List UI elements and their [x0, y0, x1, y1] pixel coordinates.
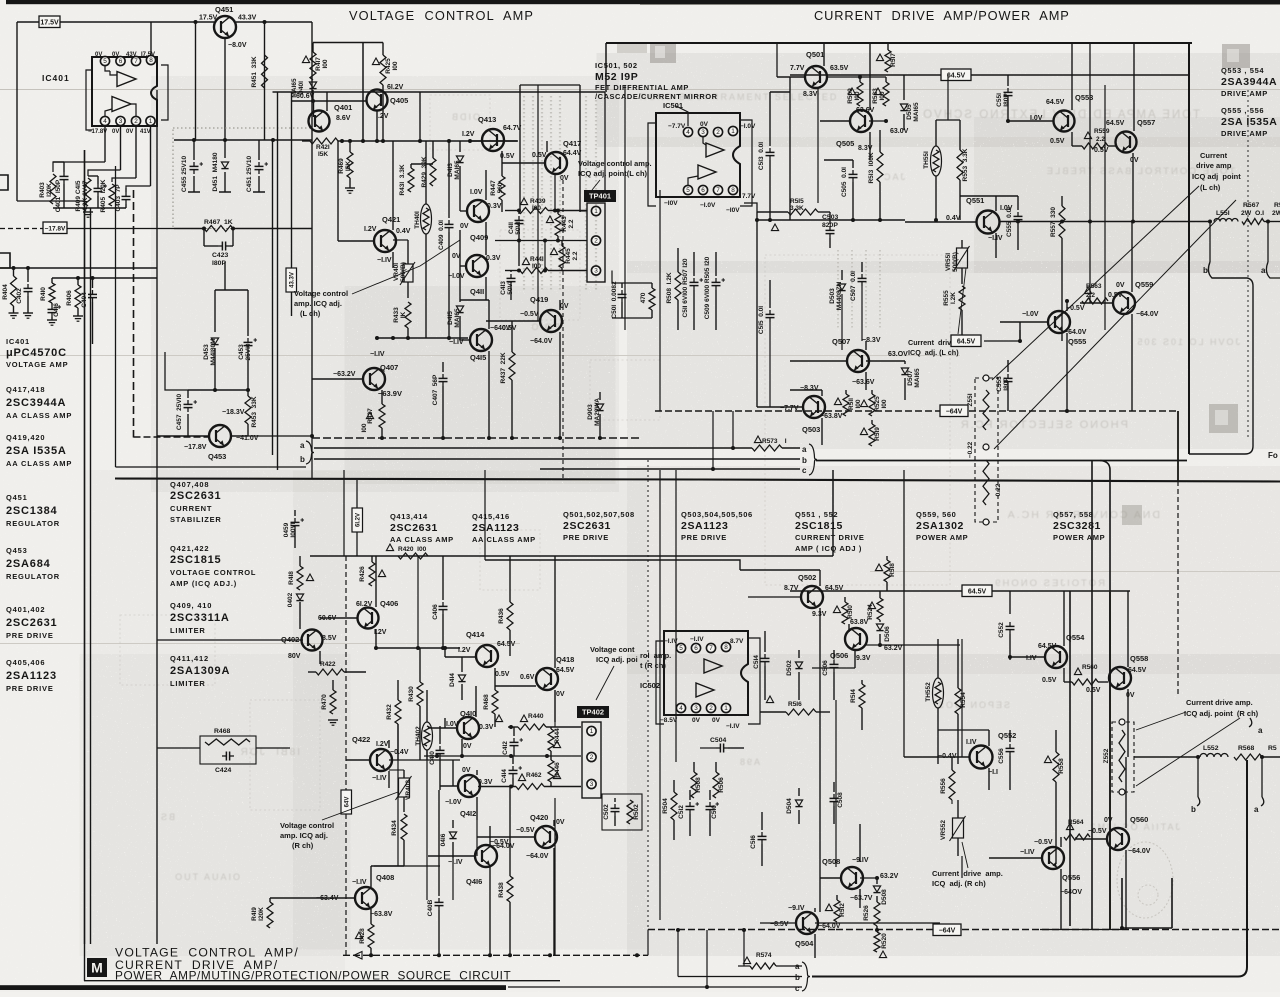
title block letter M: [87, 958, 107, 977]
diode D503: [841, 270, 843, 280]
svg-text:TP402: TP402: [582, 708, 604, 717]
svg-text:2SA1123: 2SA1123: [681, 520, 728, 532]
svg-text:Q407: Q407: [380, 363, 398, 372]
bottom right box: [1121, 878, 1123, 928]
svg-text:25VI0: 25VI0: [245, 343, 252, 360]
svg-text:R468: R468: [483, 694, 490, 710]
resistor R526: [874, 902, 880, 926]
capacitor C411: [518, 212, 520, 214]
svg-text:C4I0: C4I0: [429, 751, 436, 765]
transistor Q413: [482, 129, 504, 151]
svg-text:D4I5: D4I5: [447, 311, 454, 325]
wire Q502: [748, 596, 801, 598]
wire 17.5V bus: [17, 21, 214, 23]
svg-text:0.6V: 0.6V: [520, 674, 535, 681]
capacitor C403: [125, 188, 127, 192]
bottom rails abc: [738, 965, 750, 967]
svg-text:0V: 0V: [560, 303, 569, 310]
diode D506: [879, 620, 881, 622]
svg-text:JAC: JAC: [882, 172, 905, 182]
svg-text:C5I0: C5I0: [711, 805, 718, 819]
wire Q555: [1000, 321, 1048, 323]
rail y556 upper R: [310, 555, 833, 557]
svg-text:R4I7: R4I7: [315, 57, 322, 71]
transistor Q407: [363, 368, 385, 390]
svg-text:R574: R574: [756, 952, 772, 959]
b a hook drops Lch: [1209, 222, 1211, 263]
svg-text:2.2: 2.2: [1086, 292, 1095, 299]
svg-text:Voltage control: Voltage control: [280, 821, 334, 830]
svg-text:POWER AMP: POWER AMP: [1053, 533, 1105, 542]
svg-text:I8BI JOR: I8BI JOR: [239, 747, 300, 758]
svg-text:0V: 0V: [460, 223, 469, 230]
svg-text:R444: R444: [554, 728, 561, 744]
svg-text:2W O.I: 2W O.I: [1241, 210, 1264, 217]
wire Q503: [757, 406, 803, 408]
svg-text:−I.IV: −I.IV: [370, 351, 385, 358]
transistor Q556: [1042, 847, 1064, 869]
svg-text:43.3V: 43.3V: [290, 272, 296, 288]
svg-text:C4II: C4II: [508, 222, 515, 234]
IC401 package: [92, 57, 157, 126]
svg-text:6I.2V: 6I.2V: [356, 513, 362, 527]
transistor Q419: [540, 310, 562, 332]
svg-text:Q501,502,507,508: Q501,502,507,508: [563, 510, 635, 519]
transistor Q553: [1054, 111, 1075, 132]
transistor Q401: [309, 111, 330, 132]
svg-text:D451 M4180: D451 M4180: [212, 152, 219, 191]
svg-text:C50I 0.0082: C50I 0.0082: [611, 281, 618, 319]
resistor R405: [109, 184, 115, 206]
svg-text:0459: 0459: [283, 522, 290, 537]
svg-text:R5I4: R5I4: [850, 689, 857, 703]
long vertical x291 43.3V: [291, 92, 293, 268]
svg-text:2W: 2W: [1272, 210, 1280, 217]
transistor Q412: [458, 775, 480, 797]
wire Q505: [820, 120, 850, 122]
svg-text:a: a: [795, 962, 800, 971]
resistor R440 horizontal: [508, 726, 518, 728]
TP401 pin 3: [591, 266, 600, 275]
svg-text:0V: 0V: [95, 52, 102, 58]
rail y43 top: [606, 42, 1192, 44]
upper rail y42: [313, 42, 383, 44]
svg-text:A98: A98: [738, 757, 760, 767]
rail y920 dashed R: [343, 954, 648, 956]
svg-text:Q503: Q503: [802, 425, 820, 434]
svg-text:AA CLASS AMP: AA CLASS AMP: [472, 535, 536, 544]
svg-text:Current drive amp.: Current drive amp.: [932, 869, 1003, 878]
transistor Q402: [302, 630, 323, 651]
svg-text:820P: 820P: [822, 222, 838, 229]
svg-text:I00: I00: [879, 91, 886, 100]
svg-text:0V: 0V: [692, 717, 701, 724]
svg-text:IC502: IC502: [640, 681, 660, 690]
IC502 package: [664, 631, 748, 715]
resistor R431: [410, 164, 412, 168]
svg-text:64.5V: 64.5V: [1128, 667, 1147, 674]
transistor Q507: [847, 350, 869, 372]
transistor Q506: [845, 628, 867, 650]
capacitor C451: [258, 140, 260, 160]
resistor R560: [1064, 681, 1072, 683]
wires from IC401 pins down: [104, 126, 106, 162]
svg-text:TH40I: TH40I: [414, 211, 421, 229]
column separator x157: [156, 90, 158, 944]
rail to Q453 area: [224, 262, 226, 290]
voltage label -17.8V: [43, 222, 67, 234]
svg-text:R426: R426: [359, 566, 366, 582]
svg-text:3.3K: 3.3K: [790, 205, 804, 212]
svg-text:Current drive amp.: Current drive amp.: [1186, 698, 1253, 707]
transistor Q560: [1107, 828, 1129, 850]
svg-text:C4I4: C4I4: [501, 769, 508, 783]
svg-text:2SC3311A: 2SC3311A: [170, 612, 230, 624]
svg-text:0.3V: 0.3V: [479, 724, 494, 731]
svg-text:b: b: [1191, 805, 1196, 814]
svg-text:C407 56P: C407 56P: [432, 374, 439, 405]
capacitor C515: [769, 280, 771, 308]
wire pin8 to bus: [150, 22, 152, 56]
IC401 opamp B: [112, 97, 131, 112]
ghost fold line: [1247, 90, 1249, 440]
resistor R557: [1061, 196, 1063, 206]
svg-text:Q422: Q422: [352, 735, 370, 744]
svg-text:R429 39K: R429 39K: [421, 156, 428, 187]
svg-text:c: c: [802, 466, 807, 475]
vertical 61.2V box: [352, 508, 363, 532]
IC401 pin 6: [116, 56, 125, 65]
svg-text:50VI: 50VI: [515, 221, 522, 235]
svg-text:64.4V: 64.4V: [563, 150, 582, 157]
svg-text:PRE DRIVE: PRE DRIVE: [6, 684, 54, 693]
svg-text:t (R ch): t (R ch): [640, 661, 666, 670]
resistor R525: [871, 390, 873, 394]
transistor Q411: [466, 255, 488, 277]
IC502 pin 5: [676, 643, 685, 652]
svg-text:0V: 0V: [560, 175, 569, 182]
svg-text:Q502: Q502: [798, 573, 816, 582]
wire Q412: [440, 785, 458, 787]
rail y591 64.5V lower: [790, 590, 962, 592]
resistor R511: [845, 390, 847, 394]
right tall verticals: [1109, 592, 1111, 930]
svg-text:Q401: Q401: [334, 103, 352, 112]
svg-text:5: 5: [679, 645, 683, 652]
svg-text:63.2V: 63.2V: [884, 645, 903, 652]
svg-text:63.8V: 63.8V: [850, 619, 869, 626]
wire Q504: [760, 922, 796, 924]
rail y648 R: [376, 647, 460, 649]
svg-text:2SC3944A: 2SC3944A: [6, 397, 66, 409]
capacitor C415: [97, 176, 99, 184]
svg-text:Q420: Q420: [530, 813, 548, 822]
capacitor C414: [512, 756, 514, 764]
transistor Q502: [801, 586, 823, 608]
dither hatch strips: [524, 96, 880, 330]
svg-text:CURRENT: CURRENT: [170, 504, 212, 513]
svg-text:Q451: Q451: [6, 493, 28, 502]
svg-text:0.5V: 0.5V: [1050, 138, 1065, 145]
svg-text:2: 2: [594, 238, 598, 245]
thermistor TH552: [937, 639, 939, 678]
svg-text:2SC1815: 2SC1815: [795, 520, 843, 532]
svg-text:AA CLASS AMP: AA CLASS AMP: [6, 411, 72, 420]
TP402 pin 1: [587, 726, 596, 735]
wire Q418: [554, 556, 556, 668]
svg-text:I00: I00: [532, 205, 541, 212]
svg-text:ICQ adj. (L ch): ICQ adj. (L ch): [908, 348, 959, 357]
svg-text:R4I9: R4I9: [251, 907, 258, 921]
capacitor C507: [861, 262, 863, 272]
svg-text:64.5V: 64.5V: [947, 72, 966, 79]
svg-text:8: 8: [731, 187, 735, 194]
svg-text:2SC1815: 2SC1815: [170, 554, 221, 566]
svg-text:I00: I00: [361, 423, 368, 432]
resistor R438: [509, 788, 511, 876]
VR402 pot: [399, 778, 410, 797]
dashed bus y411 -64V: [655, 410, 941, 412]
svg-text:R447: R447: [490, 180, 497, 196]
resistor R558: [1055, 730, 1057, 752]
resistor R409: [85, 178, 91, 206]
TP402 pin strip: [582, 722, 601, 798]
resistor R523: [885, 77, 887, 82]
ground cluster: [53, 207, 126, 209]
svg-text:R559: R559: [1094, 128, 1110, 135]
svg-text:Q558: Q558: [1130, 654, 1148, 663]
coil L552: [1200, 754, 1228, 758]
svg-text:−17.8V: −17.8V: [45, 225, 66, 232]
svg-text:VOLTAGE CONTROL AMP: VOLTAGE CONTROL AMP: [349, 8, 534, 23]
svg-text:2: 2: [716, 129, 720, 136]
resistor R517: [887, 43, 889, 50]
svg-text:POWER AMP/MUTING/PROTECTION/P: POWER AMP/MUTING/PROTECTION/POWER SOURCE…: [115, 969, 511, 983]
svg-text:8.5V: 8.5V: [322, 635, 337, 642]
svg-text:ROTOIJES ONOH9: ROTOIJES ONOH9: [993, 578, 1105, 589]
svg-text:Q553 , 554: Q553 , 554: [1221, 66, 1264, 75]
transistor Q559: [1113, 292, 1135, 314]
svg-text:R462: R462: [526, 772, 542, 779]
svg-text:I00VI: I00VI: [290, 522, 297, 537]
svg-text:R5II: R5II: [848, 398, 855, 410]
svg-text:C5I5 0.0I: C5I5 0.0I: [758, 306, 765, 334]
resistor R420: [398, 553, 428, 559]
svg-text:R5I6: R5I6: [788, 701, 802, 708]
svg-text:Q421,422: Q421,422: [170, 544, 209, 553]
svg-text:−I.IV: −I.IV: [448, 859, 463, 866]
long vertical x312: [311, 22, 313, 140]
svg-text:R44I: R44I: [530, 256, 544, 263]
svg-text:Q421: Q421: [382, 215, 400, 224]
transistor Q508: [841, 867, 863, 889]
svg-text:DRIVE AMP: DRIVE AMP: [1221, 129, 1268, 138]
svg-text:R504: R504: [662, 798, 669, 814]
svg-text:Q451: Q451: [215, 5, 233, 14]
svg-text:C4I3: C4I3: [500, 281, 507, 295]
svg-text:TP401: TP401: [589, 192, 611, 201]
svg-text:M44I80M: M44I80M: [210, 338, 217, 365]
capacitor C505: [852, 160, 854, 168]
vertical x1190: [1188, 43, 1190, 454]
svg-text:I5K: I5K: [318, 151, 328, 158]
svg-text:C401 I50P: C401 I50P: [55, 179, 62, 212]
svg-text:I.IV: I.IV: [966, 739, 977, 746]
svg-text:Q554: Q554: [1066, 633, 1085, 642]
svg-text:−8.5V: −8.5V: [770, 921, 789, 928]
svg-text:1: 1: [590, 728, 594, 735]
svg-text:−63.2V: −63.2V: [333, 371, 356, 378]
resistor R418: [299, 556, 301, 566]
svg-text:8.7V: 8.7V: [784, 585, 799, 592]
svg-text:Q409, 410: Q409, 410: [170, 601, 212, 610]
capacitor C407: [442, 362, 444, 372]
svg-text:0.5V: 0.5V: [1086, 687, 1101, 694]
svg-text:−I0V: −I0V: [726, 207, 740, 214]
resistor R403: [50, 174, 56, 204]
svg-text:Z552: Z552: [1103, 748, 1110, 763]
svg-text:C502: C502: [603, 804, 610, 820]
svg-text:Q4I5: Q4I5: [470, 353, 486, 362]
IC502 pin 3: [691, 703, 700, 712]
resistor R434: [401, 814, 407, 840]
IC501 package: [656, 113, 740, 197]
svg-text:c: c: [795, 984, 800, 992]
IC501 pin 6: [698, 185, 707, 194]
svg-text:Q406: Q406: [380, 599, 398, 608]
IC401 outer loop wires: [86, 70, 92, 130]
svg-text:I20K: I20K: [46, 183, 53, 197]
wire Q422: [346, 759, 370, 761]
svg-text:−0.5V: −0.5V: [516, 827, 535, 834]
svg-text:OIDB: OIDB: [450, 112, 480, 122]
wire Q558: [1127, 591, 1129, 667]
svg-text:64.5V: 64.5V: [1038, 643, 1057, 650]
capacitor C513: [769, 92, 771, 146]
svg-text:1: 1: [149, 118, 153, 125]
svg-text:(R ch): (R ch): [292, 841, 314, 850]
svg-text:C508: C508: [837, 792, 844, 808]
svg-text:6: 6: [701, 187, 705, 194]
wire Q554: [1063, 591, 1065, 646]
svg-text:2SC2631: 2SC2631: [390, 522, 438, 534]
svg-text:R508: R508: [695, 777, 702, 793]
resistor R514: [861, 680, 863, 684]
mid line c: [540, 468, 800, 470]
svg-text:I5K: I5K: [345, 161, 352, 171]
svg-text:a: a: [1258, 726, 1263, 735]
svg-text:R560: R560: [1082, 664, 1098, 671]
svg-text:R420 I00: R420 I00: [398, 546, 427, 553]
svg-text:2SA1123: 2SA1123: [472, 522, 519, 534]
resistor R555: [959, 286, 965, 310]
diode D401: [309, 82, 316, 88]
svg-text:3: 3: [594, 268, 598, 275]
svg-text:4.9K 6V47: 4.9K 6V47: [82, 180, 89, 211]
svg-text:AA CLASS AMP: AA CLASS AMP: [6, 459, 72, 468]
transistor Q421: [374, 230, 396, 252]
capacitor C508: [833, 782, 835, 792]
svg-text:R553 3.3K: R553 3.3K: [962, 148, 969, 181]
svg-text:−0.5V: −0.5V: [520, 311, 539, 318]
IC502 pin 7: [706, 643, 715, 652]
svg-text:C506: C506: [822, 660, 829, 676]
svg-text:Q419,420: Q419,420: [6, 433, 45, 442]
svg-text:0V: 0V: [112, 129, 119, 135]
svg-text:−8.5V: −8.5V: [660, 717, 678, 724]
svg-text:Voltage control: Voltage control: [294, 289, 348, 298]
svg-text:(L ch): (L ch): [1200, 183, 1221, 192]
wire Q415: [460, 339, 470, 341]
svg-text:R524: R524: [867, 604, 874, 620]
svg-text:0V: 0V: [112, 52, 119, 58]
svg-text:5: 5: [686, 187, 690, 194]
resistor R554: [957, 639, 959, 688]
svg-text:8: 8: [149, 57, 153, 64]
svg-text:−0.5V: −0.5V: [1088, 828, 1107, 835]
svg-text:R440: R440: [528, 713, 544, 720]
svg-text:63.6V: 63.6V: [856, 107, 875, 114]
svg-text:CURRENT DRIVE AMP/POWER AMP: CURRENT DRIVE AMP/POWER AMP: [814, 8, 1070, 23]
svg-text:R508 I.2K: R508 I.2K: [666, 272, 673, 303]
svg-text:0.3V: 0.3V: [487, 203, 502, 210]
svg-text:I.IV: I.IV: [1026, 655, 1037, 662]
transistor Q415: [470, 329, 492, 351]
transistor Q555: [1048, 311, 1070, 333]
svg-text:−64.0V: −64.0V: [1136, 311, 1159, 318]
svg-text:Q405: Q405: [390, 96, 408, 105]
IC501 opamp B: [698, 165, 716, 179]
svg-text:Q551: Q551: [966, 196, 984, 205]
svg-text:R42I: R42I: [316, 144, 330, 151]
svg-text:2: 2: [709, 705, 713, 712]
IC502 pin 2: [706, 703, 715, 712]
title block border: [84, 980, 560, 982]
transistor Q408: [355, 887, 377, 909]
capacitor C455: [193, 140, 195, 160]
svg-text:6: 6: [694, 645, 698, 652]
wires TP402 connections: [424, 755, 581, 757]
svg-text:R554: R554: [960, 692, 967, 708]
TP401 pin strip: [587, 203, 605, 282]
svg-text:2: 2: [134, 118, 138, 125]
wire Q507: [865, 341, 867, 350]
capacitor C514: [764, 631, 766, 652]
svg-text:R568: R568: [1238, 745, 1254, 752]
svg-text:5: 5: [103, 58, 107, 65]
svg-text:Q507: Q507: [832, 337, 850, 346]
rail y390: [188, 389, 248, 391]
svg-text:D453: D453: [203, 344, 210, 360]
svg-text:63.OV: 63.OV: [888, 351, 908, 358]
svg-text:C457 25VI0: C457 25VI0: [176, 394, 183, 431]
svg-text:M52 I9P: M52 I9P: [595, 71, 638, 83]
svg-text:R563: R563: [1086, 283, 1102, 290]
svg-text:Q411,412: Q411,412: [170, 654, 209, 663]
wire Q413-Q417: [470, 140, 518, 142]
svg-text:−0.4V: −0.4V: [390, 749, 409, 756]
IC502 pin 1: [721, 703, 730, 712]
svg-text:−I.IV: −I.IV: [377, 257, 392, 264]
resistor R453: [247, 390, 249, 396]
svg-text:R422: R422: [320, 661, 336, 668]
svg-text:17.5V: 17.5V: [40, 19, 59, 26]
svg-text:Voltage control amp.: Voltage control amp.: [578, 159, 652, 168]
left mid long verticals: [343, 470, 345, 556]
svg-text:R451 33K: R451 33K: [251, 56, 258, 87]
capacitor C555: [1017, 196, 1019, 210]
svg-text:VR55I: VR55I: [945, 253, 952, 271]
